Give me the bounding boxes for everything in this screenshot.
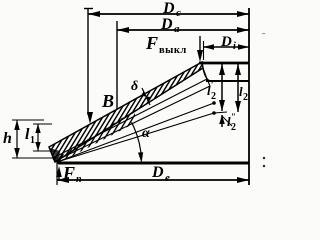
angle alpha arc bbox=[132, 122, 142, 160]
ray flattened position 1 bbox=[57, 103, 214, 162]
band tip dark blob bbox=[50, 148, 60, 162]
svg-text:h: h bbox=[3, 130, 12, 147]
extension line De left bbox=[56, 161, 58, 185]
flattened outline end cut bbox=[203, 68, 207, 79]
stray mark top right bbox=[262, 32, 265, 35]
tick l1 top bbox=[33, 123, 52, 125]
svg-text:2: 2 bbox=[211, 91, 216, 102]
spring flattened outline top bbox=[53, 79, 207, 158]
base line at outer edge bbox=[58, 162, 249, 165]
svg-text:c: c bbox=[176, 7, 181, 19]
dimension l2' bbox=[221, 64, 223, 111]
spring band cross-section (hatched) bbox=[30, 55, 276, 170]
dimension Dc bbox=[88, 13, 249, 15]
svg-text:D: D bbox=[162, 0, 175, 17]
svg-text:α: α bbox=[142, 126, 150, 141]
force Fn arrow (up) bbox=[58, 170, 60, 181]
tip fan hatch patch bbox=[40, 109, 175, 175]
ray flattened position 2 bbox=[57, 113, 214, 162]
ray 2 extension bbox=[214, 112, 227, 113]
svg-text:′: ′ bbox=[211, 80, 214, 90]
delta thickness tick bbox=[142, 88, 150, 105]
tick h bottom bbox=[12, 157, 58, 159]
svg-text:i: i bbox=[233, 41, 236, 52]
svg-text:D: D bbox=[151, 164, 164, 181]
svg-text:e: e bbox=[165, 172, 170, 184]
svg-text:2: 2 bbox=[243, 92, 248, 103]
l2'' outside arrow and leader bbox=[221, 115, 223, 127]
tick top Dc bbox=[84, 8, 93, 10]
svg-text:δ: δ bbox=[131, 79, 138, 94]
dimension Da bbox=[117, 29, 249, 31]
svg-text:2: 2 bbox=[231, 122, 236, 133]
extension line Dc bbox=[87, 8, 89, 115]
svg-text:″: ″ bbox=[231, 112, 236, 122]
dimension Di bbox=[203, 46, 249, 48]
tick h top bbox=[12, 119, 44, 121]
extension line Di bbox=[203, 41, 205, 60]
tick l1 bottom bbox=[33, 150, 56, 152]
svg-text:1: 1 bbox=[30, 135, 35, 146]
spring flattened outline bottom bbox=[55, 86, 210, 161]
svg-text:D: D bbox=[160, 16, 173, 33]
flattened position inner flat line bbox=[206, 80, 249, 82]
dimension De bbox=[57, 179, 249, 181]
arrow B (down to band top edge) bbox=[87, 112, 93, 124]
dimension h bbox=[16, 120, 18, 158]
extension line Da bbox=[116, 21, 118, 110]
shelf line at inner edge bbox=[199, 62, 249, 65]
svg-text:B: B bbox=[101, 91, 114, 111]
svg-text:a: a bbox=[174, 23, 180, 35]
knee connector bbox=[203, 68, 210, 81]
force F_vykl arrow bbox=[199, 36, 201, 58]
dimension l1 bbox=[37, 124, 39, 151]
svg-text:D: D bbox=[220, 34, 232, 50]
dimension l2 bbox=[237, 64, 239, 112]
svg-text:выкл: выкл bbox=[159, 45, 187, 56]
svg-text:F: F bbox=[145, 33, 158, 53]
stray semicolon bottom right bbox=[263, 157, 265, 159]
axis centerline bbox=[248, 8, 250, 185]
